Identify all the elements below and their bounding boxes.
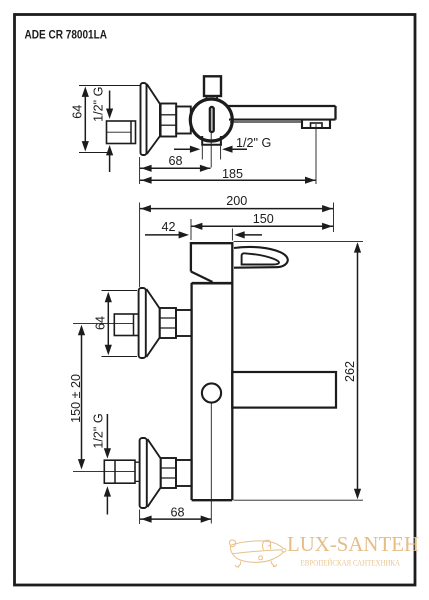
cone right face xyxy=(159,104,161,136)
hex nut (top view) xyxy=(161,104,177,137)
escutcheon plate (top view) xyxy=(141,83,147,155)
svg-text:1/2" G: 1/2" G xyxy=(92,87,106,122)
svg-text:262: 262 xyxy=(343,361,357,382)
handle stem xyxy=(207,96,218,100)
upper nut facet lines xyxy=(160,318,176,328)
svg-text:185: 185 xyxy=(222,167,243,181)
dim 68 line (top view) xyxy=(140,167,211,169)
svg-text:64: 64 xyxy=(93,316,107,330)
svg-text:200: 200 xyxy=(226,194,247,208)
spout inner bottom line xyxy=(230,121,302,123)
svg-text:1/2" G: 1/2" G xyxy=(92,413,106,448)
leader arrow up to nipple bottom xyxy=(109,153,111,172)
dim 68 left extension xyxy=(139,510,141,525)
dim 262 top extension line xyxy=(234,240,363,242)
svg-text:ADE CR 78001LA: ADE CR 78001LA xyxy=(25,28,108,42)
callout arrows 1/2 G (top view bottom port) xyxy=(174,148,193,150)
outlet center line xyxy=(315,124,317,184)
aerator xyxy=(311,123,323,128)
svg-text:150 ± 20: 150 ± 20 xyxy=(69,374,83,423)
lower leader arrow up xyxy=(106,494,108,515)
lower hex nut xyxy=(161,458,176,488)
connector cylinder (top view) xyxy=(176,107,191,134)
left extension line below plate xyxy=(139,157,141,184)
spout right end xyxy=(334,106,336,120)
lower cone xyxy=(147,439,160,507)
dim 150±20 line xyxy=(81,327,83,467)
upper nipple thread band xyxy=(133,314,135,336)
dim 200 line xyxy=(140,208,334,210)
leader arrow down to nipple xyxy=(109,91,111,112)
dim 64 line (bottom view) xyxy=(107,294,109,353)
upper nipple xyxy=(114,314,138,336)
connector extension lines xyxy=(202,146,220,160)
dim 64 line xyxy=(84,89,86,149)
svg-text:LUX-SANTEH: LUX-SANTEH xyxy=(287,532,419,556)
spout block (bottom view) xyxy=(232,372,336,408)
spout bottom edge xyxy=(229,119,336,121)
svg-text:150: 150 xyxy=(253,212,274,226)
svg-text:ЕВРОПЕЙСКАЯ САНТЕХНИКА: ЕВРОПЕЙСКАЯ САНТЕХНИКА xyxy=(301,558,401,567)
dim 200/150 right extension line xyxy=(333,203,335,233)
svg-text:64: 64 xyxy=(71,105,85,119)
dim 262 line xyxy=(357,244,359,497)
nipple center line xyxy=(107,131,132,133)
upper connector cylinder xyxy=(176,310,192,336)
dim 150 line xyxy=(191,225,333,227)
dim 185 line xyxy=(140,179,316,181)
lower nut facet lines xyxy=(161,468,176,478)
dim 42 right extension line xyxy=(231,229,233,241)
lower nipple neck xyxy=(135,462,140,481)
spout outlet box xyxy=(302,120,330,128)
nipple thread band xyxy=(130,121,132,144)
upper cone xyxy=(146,289,159,357)
cap diagonal cut xyxy=(191,272,213,283)
lower nipple xyxy=(104,460,135,483)
nut facet line 2 xyxy=(161,124,177,126)
upper nipple center line xyxy=(73,322,134,324)
circle center extension line xyxy=(210,133,212,168)
dim 64 arrow up xyxy=(82,87,89,97)
dim 64 extension line bottom xyxy=(79,152,111,154)
upper escutcheon plate xyxy=(139,288,146,358)
dim 262 bottom extension line xyxy=(234,499,364,501)
dim 64 arrow down xyxy=(82,141,89,151)
handle lever outer (bottom view) xyxy=(234,247,288,268)
upper hex nut xyxy=(160,308,176,338)
escutcheon cone (top view) xyxy=(147,84,160,154)
body column right edge xyxy=(231,283,233,500)
body center line xyxy=(210,403,212,524)
wall nipple (top view) xyxy=(107,121,136,144)
watermark logo group xyxy=(229,532,419,567)
lower connector cylinder xyxy=(176,460,192,486)
diverter knob circle (bottom view) xyxy=(202,383,221,402)
dim 64 (bottom view) ext lines xyxy=(102,290,138,292)
spout top edge (top view) xyxy=(226,105,336,107)
bottom connector under circle xyxy=(201,136,222,145)
watermark bathtub icon xyxy=(229,540,285,567)
cartridge slot xyxy=(210,107,214,132)
dim 64 extension line top xyxy=(79,85,140,87)
svg-text:68: 68 xyxy=(168,154,182,168)
lower leader arrow down xyxy=(106,414,108,450)
dim 42 arrows xyxy=(145,234,179,236)
cap/body joint line xyxy=(192,282,233,285)
nut facet line 1 xyxy=(161,114,177,116)
mixer body circle (top view) xyxy=(190,99,232,141)
lower escutcheon plate xyxy=(140,438,147,508)
lower nipple center line xyxy=(73,471,135,473)
svg-text:68: 68 xyxy=(170,506,184,520)
body column left edge xyxy=(190,283,192,500)
handle knob (top view) xyxy=(204,76,221,96)
dim 200 left extension line xyxy=(139,203,141,288)
body bottom edge xyxy=(192,499,233,501)
dim 150 left extension line xyxy=(190,219,192,240)
svg-text:42: 42 xyxy=(161,220,175,234)
body top cap (bottom view) xyxy=(191,243,232,283)
dim 68 line (bottom view) xyxy=(140,518,211,520)
lower nipple thread band xyxy=(114,460,116,483)
svg-text:1/2" G: 1/2" G xyxy=(236,136,271,150)
handle lever inner xyxy=(242,253,279,264)
